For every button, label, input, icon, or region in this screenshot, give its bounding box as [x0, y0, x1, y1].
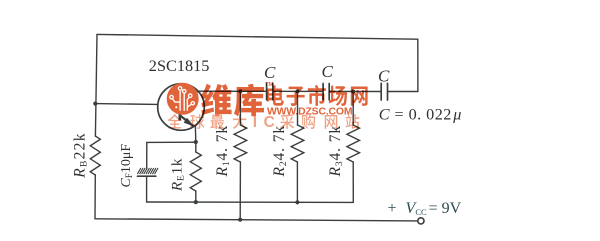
svg-text:TM: TM: [265, 82, 274, 88]
svg-text:RE1k: RE1k: [170, 158, 187, 192]
svg-text:CF10μF: CF10μF: [119, 144, 134, 188]
node R3 top dot: [351, 89, 355, 93]
resistor R3 4.7k: [352, 92, 354, 126]
wire collector rail with capacitor gaps: [199, 90, 266, 92]
wire emitter lead down: [194, 127, 196, 142]
node R1 bottom dot on Vcc rail: [238, 218, 242, 222]
svg-text:R14. 7k: R14. 7k: [214, 125, 232, 178]
transistor collector diagonal: [180, 91, 199, 98]
resistor R1 4.7k: [239, 91, 241, 125]
resistor R2 4.7k: [297, 91, 299, 125]
watermark big 维库: [201, 84, 264, 117]
svg-text:RB22k: RB22k: [72, 132, 90, 179]
wire ground rail (emitter common): [147, 201, 354, 203]
watermark logo tree: [173, 90, 192, 110]
capacitor CF bottom plate: [138, 175, 156, 177]
svg-text:2SC1815: 2SC1815: [149, 56, 210, 75]
svg-text:R34. 7k: R34. 7k: [327, 125, 345, 178]
svg-text:R24. 7k: R24. 7k: [271, 125, 289, 178]
node R2 bottom dot: [295, 200, 299, 204]
wire base lead: [95, 103, 158, 106]
svg-text:C: C: [322, 62, 334, 81]
transistor base bar: [179, 96, 182, 119]
emitter arrow head: [184, 118, 195, 127]
node RE bottom dot: [194, 200, 198, 204]
capacitor C second plates: [322, 84, 324, 100]
terminal Vcc open circle: [418, 218, 424, 224]
svg-text:C: C: [378, 66, 390, 85]
svg-text:C: C: [264, 63, 276, 82]
node base junction dot: [93, 102, 97, 106]
watermark slogan 全球最大IC采购网站: [168, 114, 360, 131]
wire left vertical (base/RB branch): [95, 34, 97, 136]
wire Vcc bottom rail: [95, 219, 418, 221]
node R2 top dot: [295, 89, 299, 93]
wire right vertical: [417, 39, 419, 91]
watermark logo disc: [167, 83, 199, 115]
node emitter junction dot: [194, 140, 198, 144]
svg-text:I: I: [253, 114, 257, 131]
svg-text:C = 0. 022μ: C = 0. 022μ: [379, 106, 462, 124]
wire CF top lead: [146, 142, 148, 168]
wire CF bottom lead: [146, 176, 148, 202]
svg-text:C: C: [264, 114, 275, 131]
wire top feedback rail: [97, 34, 418, 39]
watermark 电子市场网: [267, 85, 368, 106]
transistor Q1 2SC1815 circle: [158, 84, 205, 131]
capacitor C third plates: [380, 83, 382, 100]
resistor RE 1k: [195, 142, 197, 152]
wire emitter node to CF branch: [147, 141, 196, 143]
capacitor C first plates: [266, 84, 268, 100]
capacitor CF electrolytic hatched plate: [138, 168, 158, 173]
node R1 top dot: [238, 89, 242, 93]
transistor emitter diagonal: [180, 115, 194, 126]
resistor RB 22k zigzag: [90, 136, 100, 175]
